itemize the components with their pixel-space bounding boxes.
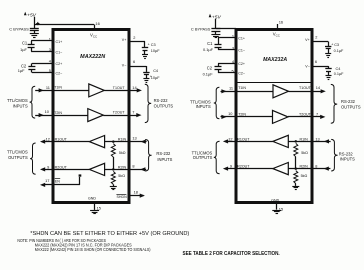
svg-text:11: 11 <box>46 85 50 90</box>
svg-text:R1IN: R1IN <box>300 138 309 142</box>
svg-text:T2OUT: T2OUT <box>113 111 126 115</box>
svg-text:14: 14 <box>316 85 321 90</box>
svg-text:V+: V+ <box>122 38 127 42</box>
svg-text:INPUTS: INPUTS <box>340 157 355 162</box>
svg-text:OUTPUTS: OUTPUTS <box>193 155 213 160</box>
svg-text:T1OUT: T1OUT <box>299 86 312 90</box>
svg-text:GND: GND <box>271 199 279 203</box>
svg-text:VCC: VCC <box>90 33 97 39</box>
svg-text:RS-232: RS-232 <box>339 151 354 156</box>
svg-text:C2: C2 <box>207 66 213 71</box>
svg-text:1µF: 1µF <box>18 68 25 73</box>
svg-text:C BYPASS: C BYPASS <box>191 27 211 32</box>
svg-text:7: 7 <box>132 110 134 115</box>
svg-text:11: 11 <box>229 86 233 91</box>
svg-text:1: 1 <box>232 33 234 38</box>
svg-text:10µF: 10µF <box>151 76 160 80</box>
svg-text:9: 9 <box>47 164 49 169</box>
svg-text:R2OUT: R2OUT <box>237 165 250 169</box>
svg-text:MAX222N: MAX222N <box>80 54 105 60</box>
svg-text:MAX232A: MAX232A <box>263 57 287 63</box>
svg-text:+5V: +5V <box>27 12 37 18</box>
svg-text:SHDN: SHDN <box>117 195 128 199</box>
svg-text:T2IN: T2IN <box>54 111 62 115</box>
svg-text:15: 15 <box>97 205 101 210</box>
svg-text:R1IN: R1IN <box>118 138 127 142</box>
svg-text:T1IN: T1IN <box>54 86 62 90</box>
svg-text:T2OUT: T2OUT <box>299 113 312 117</box>
svg-text:8: 8 <box>132 163 134 168</box>
svg-text:+: + <box>331 42 333 46</box>
svg-text:C1−: C1− <box>238 48 245 52</box>
svg-text:6: 6 <box>133 59 135 64</box>
svg-text:C2−: C2− <box>56 71 63 75</box>
svg-text:V+: V+ <box>305 38 310 42</box>
svg-text:C4: C4 <box>153 69 158 73</box>
svg-text:INPUTS: INPUTS <box>157 157 172 162</box>
svg-text:RS-232: RS-232 <box>154 98 169 103</box>
svg-text:3: 3 <box>49 47 51 52</box>
svg-text:5kΩ: 5kΩ <box>118 174 125 178</box>
svg-text:INPUTS: INPUTS <box>196 104 211 109</box>
svg-text:0.1µF: 0.1µF <box>334 72 344 76</box>
svg-text:+5V: +5V <box>212 14 222 20</box>
svg-text:C4: C4 <box>336 67 341 71</box>
svg-text:GND: GND <box>88 196 96 200</box>
svg-text:7: 7 <box>316 112 318 117</box>
svg-text:C1−: C1− <box>56 50 63 54</box>
svg-text:2: 2 <box>315 34 317 39</box>
svg-text:V−: V− <box>122 63 127 67</box>
svg-text:C2−: C2− <box>238 71 245 75</box>
svg-text:16: 16 <box>279 20 284 25</box>
svg-text:2: 2 <box>133 35 135 40</box>
svg-text:RS-232: RS-232 <box>341 99 356 104</box>
svg-text:14: 14 <box>132 85 137 90</box>
svg-text:C BYPASS: C BYPASS <box>9 26 29 31</box>
svg-text:C3: C3 <box>151 43 156 47</box>
svg-text:12: 12 <box>46 137 50 142</box>
svg-text:5: 5 <box>232 68 234 73</box>
svg-text:6: 6 <box>315 59 317 64</box>
svg-text:5kΩ: 5kΩ <box>301 151 308 155</box>
svg-text:5: 5 <box>49 68 51 73</box>
svg-text:16: 16 <box>95 21 100 26</box>
svg-text:5kΩ: 5kΩ <box>119 151 126 155</box>
svg-text:C1: C1 <box>22 40 28 45</box>
svg-text:3: 3 <box>232 45 234 50</box>
svg-text:R2OUT: R2OUT <box>55 166 68 170</box>
svg-text:13: 13 <box>132 136 136 141</box>
svg-text:R1OUT: R1OUT <box>237 138 250 142</box>
svg-text:+: + <box>148 43 150 47</box>
svg-text:17: 17 <box>45 178 49 183</box>
svg-text:C1: C1 <box>207 41 213 46</box>
svg-text:8: 8 <box>315 164 317 169</box>
svg-text:18: 18 <box>134 190 138 195</box>
svg-text:0.1µF: 0.1µF <box>203 72 214 77</box>
svg-text:EN: EN <box>55 179 60 183</box>
svg-text:C1+: C1+ <box>56 40 63 44</box>
svg-text:MAX222 (MAX242) PIN 18 IS SHDN: MAX222 (MAX242) PIN 18 IS SHDN (OR CONNE… <box>35 247 151 252</box>
svg-text:V−: V− <box>305 65 310 69</box>
svg-text:0.1µF: 0.1µF <box>334 49 344 53</box>
svg-text:1: 1 <box>49 36 51 41</box>
svg-text:10: 10 <box>228 111 233 116</box>
svg-text:C2+: C2+ <box>56 62 63 66</box>
svg-text:10: 10 <box>45 109 50 114</box>
svg-text:TTL/CMOS: TTL/CMOS <box>7 149 28 154</box>
svg-text:R2IN: R2IN <box>300 165 309 169</box>
svg-text:12: 12 <box>228 136 232 141</box>
svg-text:T1OUT: T1OUT <box>113 86 126 90</box>
svg-text:C1+: C1+ <box>238 36 245 40</box>
svg-text:OUTPUTS: OUTPUTS <box>8 155 28 160</box>
svg-text:C2+: C2+ <box>238 62 245 66</box>
svg-text:13: 13 <box>315 136 319 141</box>
svg-text:VCC: VCC <box>273 32 280 38</box>
svg-text:R2IN: R2IN <box>118 166 127 170</box>
svg-text:RS-232: RS-232 <box>156 151 171 156</box>
svg-text:T2IN: T2IN <box>238 113 246 117</box>
svg-text:1µF: 1µF <box>20 47 27 52</box>
svg-text:5kΩ: 5kΩ <box>301 174 308 178</box>
svg-text:OUTPUTS: OUTPUTS <box>154 104 174 109</box>
svg-text:C3: C3 <box>334 43 339 47</box>
svg-text:INPUTS: INPUTS <box>13 104 28 109</box>
svg-text:TTL/CMOS: TTL/CMOS <box>7 98 28 103</box>
svg-text:OUTPUTS: OUTPUTS <box>341 105 361 110</box>
svg-text:R1OUT: R1OUT <box>55 138 68 142</box>
svg-text:*SHDN CAN BE SET EITHER TO EIT: *SHDN CAN BE SET EITHER TO EITHER +5V (O… <box>30 231 189 237</box>
svg-text:T1IN: T1IN <box>238 86 246 90</box>
svg-text:0.1µF: 0.1µF <box>203 47 214 52</box>
svg-text:SEE TABLE 2 FOR CAPACITOR SELE: SEE TABLE 2 FOR CAPACITOR SELECTION. <box>183 251 281 257</box>
svg-text:10µF: 10µF <box>151 49 160 53</box>
svg-text:9: 9 <box>230 164 232 169</box>
